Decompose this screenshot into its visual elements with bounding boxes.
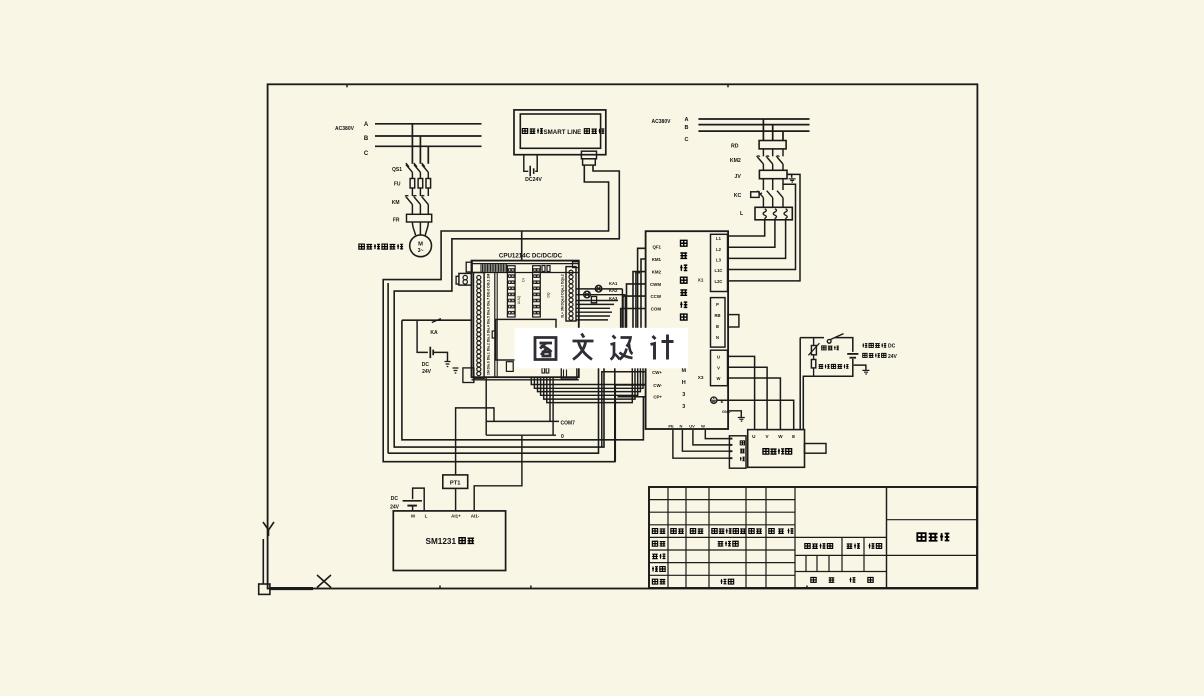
svg-text:CW+: CW+: [652, 370, 662, 375]
svg-text:KM: KM: [392, 200, 400, 206]
svg-text:KM2: KM2: [652, 270, 662, 275]
svg-text:N: N: [716, 335, 719, 340]
svg-text:KA: KA: [430, 330, 438, 336]
svg-text:24V: 24V: [888, 354, 898, 360]
svg-text:X3: X3: [698, 375, 704, 380]
svg-text:V: V: [717, 365, 720, 370]
svg-text:B: B: [685, 125, 689, 131]
svg-text:A: A: [685, 117, 689, 123]
svg-text:DC: DC: [422, 362, 430, 368]
svg-text:L1: L1: [716, 236, 722, 241]
svg-text:UV: UV: [689, 423, 695, 428]
svg-text:1M DIa.0 DIa.1 DIa.2 DIa.3 DIa: 1M DIa.0 DIa.1 DIa.2 DIa.3 DIa.4 DIa.5 D…: [487, 274, 491, 375]
svg-text:B: B: [364, 136, 369, 142]
svg-text:M: M: [411, 514, 415, 519]
svg-text:AI AQ: AI AQ: [517, 295, 521, 304]
svg-text:0: 0: [561, 434, 564, 440]
svg-text:W: W: [717, 376, 721, 381]
svg-text:KM1: KM1: [652, 257, 662, 262]
svg-text:M: M: [418, 242, 423, 248]
svg-text:L1C: L1C: [715, 268, 723, 273]
svg-text:AC380V: AC380V: [652, 119, 672, 125]
svg-text:W: W: [778, 434, 783, 439]
svg-text:DI: DI: [522, 278, 526, 281]
svg-text:AI1-: AI1-: [471, 514, 480, 519]
svg-text:X1: X1: [698, 278, 704, 283]
svg-text:SMART LINE: SMART LINE: [544, 129, 582, 136]
svg-text:RD: RD: [731, 144, 739, 150]
svg-text:RB: RB: [714, 313, 720, 318]
svg-text:3~: 3~: [418, 248, 424, 254]
svg-text:P: P: [716, 302, 719, 307]
svg-text:QS1: QS1: [392, 167, 402, 173]
svg-text:CPU1214C DC/DC/DC: CPU1214C DC/DC/DC: [499, 253, 563, 260]
svg-text:CWM: CWM: [650, 282, 661, 287]
svg-text:FU: FU: [394, 182, 401, 188]
svg-text:DC: DC: [391, 496, 399, 502]
svg-text:N: N: [680, 423, 683, 428]
svg-text:CW-: CW-: [653, 383, 662, 388]
svg-text:3L+ 3M DQa.0 DQa.1 DQa.2: 3L+ 3M DQa.0 DQa.1 DQa.2: [561, 274, 565, 318]
svg-text:W: W: [701, 423, 705, 428]
svg-text:24V: 24V: [422, 369, 432, 375]
svg-text:JV: JV: [734, 174, 741, 180]
svg-text:KA1: KA1: [609, 281, 618, 286]
svg-text:M: M: [682, 368, 687, 374]
svg-text:L3: L3: [716, 258, 722, 263]
svg-text:COM7: COM7: [561, 421, 576, 427]
svg-text:COM: COM: [651, 307, 662, 312]
svg-text:L2: L2: [716, 247, 722, 252]
svg-text:L: L: [425, 514, 428, 519]
svg-text:3: 3: [682, 404, 685, 410]
svg-text:KA3: KA3: [609, 296, 618, 301]
svg-text:B: B: [716, 324, 719, 329]
svg-text:QF1: QF1: [652, 245, 661, 250]
svg-text:H: H: [682, 380, 686, 386]
svg-text:KA2: KA2: [609, 288, 618, 293]
svg-text:C: C: [685, 137, 689, 143]
svg-text:L2C: L2C: [715, 279, 723, 284]
svg-text:DC: DC: [888, 344, 896, 350]
svg-text:3: 3: [682, 392, 685, 398]
svg-text:AC380V: AC380V: [335, 126, 355, 132]
svg-text:PE: PE: [668, 423, 674, 428]
svg-text:DC24V: DC24V: [525, 177, 542, 183]
svg-text:KM2: KM2: [730, 158, 741, 164]
svg-text:KC: KC: [734, 193, 742, 199]
svg-text:24V: 24V: [390, 505, 400, 511]
svg-text:CCW: CCW: [651, 294, 662, 299]
svg-text:PT1: PT1: [450, 481, 461, 487]
svg-text:SM1231: SM1231: [426, 537, 457, 546]
svg-text:FR: FR: [393, 218, 400, 224]
svg-text:A: A: [364, 122, 369, 128]
svg-text:C: C: [364, 151, 369, 157]
svg-text:CP+: CP+: [653, 395, 662, 400]
svg-text:AI1+: AI1+: [451, 514, 461, 519]
svg-text:DQ: DQ: [547, 292, 551, 297]
svg-text:U: U: [717, 355, 720, 360]
svg-text:E: E: [792, 434, 795, 439]
